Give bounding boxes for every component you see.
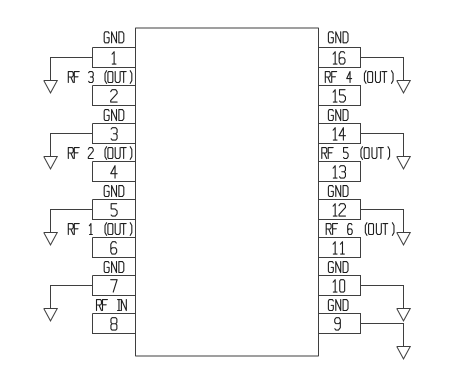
wire pin 14 vertical segment [403,133,405,157]
pin 10 number [333,280,345,292]
pin 4 box [93,162,136,182]
pin 12 box [319,200,361,220]
ground symbol pin 9 [397,347,411,359]
wire pin 14 horizontal segment [361,133,404,135]
label RF 2 (OUT) pin 4 [68,147,132,160]
wire pin 12 vertical segment [403,209,405,233]
label RF 1 (OUT) pin 6 [68,223,132,236]
pin 5 number [111,204,117,216]
wire pin 1 horizontal segment [51,57,93,59]
label RF 3 (OUT) pin 2 [68,71,132,84]
pin 2 box [93,86,136,106]
wire pin 3 horizontal segment [51,133,93,135]
wire pin 10 horizontal segment [361,285,404,287]
pin 16 number [333,52,345,64]
ground symbol pin 12 [397,233,411,245]
label GND pin 12 [328,186,348,197]
label GND pin 3 [104,110,124,121]
ground symbol pin 14 [397,157,411,169]
pin 1 number [112,52,116,64]
pin 5 box [93,200,136,220]
pin 6 box [93,238,136,258]
pin 13 box [319,162,361,182]
label RF IN pin 8 [97,300,127,311]
pin 9 box [319,314,361,334]
pin 8 number [111,318,117,330]
wire pin 9 horizontal segment [361,323,404,325]
wire pin 16 horizontal segment [361,57,404,59]
pin 15 box [319,86,361,106]
label GND pin 5 [104,186,124,197]
pin 2 number [111,90,117,102]
label GND pin 16 [328,32,348,43]
pin 4 number [111,166,117,178]
pin 10 box [319,276,361,296]
label GND pin 9 [328,300,348,311]
ground symbol pin 10 [397,309,411,321]
wire pin 3 vertical segment [50,133,52,157]
ground symbol pin 5 [44,233,58,245]
label GND pin 7 [104,262,124,273]
pin 6 number [111,242,117,254]
pin 13 number [333,166,345,178]
pin 3 box [93,124,136,144]
pin 11 number [333,242,344,254]
ground symbol pin 7 [44,309,58,321]
wire pin 7 horizontal segment [51,285,93,287]
pin 14 number [333,128,345,140]
wire pin 9 vertical segment [403,323,405,347]
pin 9 number [335,318,341,330]
pin 11 box [319,238,361,258]
pin 3 number [111,128,117,140]
label GND pin 10 [328,262,348,273]
pin 1 box [93,48,136,68]
ground symbol pin 1 [44,81,58,93]
label RF 4 (OUT) pin 15 [325,71,393,84]
wire pin 12 horizontal segment [361,209,404,211]
pin 12 number [333,204,345,216]
wire pin 10 vertical segment [403,285,405,309]
wire pin 1 vertical segment [50,57,52,81]
pin 15 number [333,90,345,102]
pin 7 number [111,280,117,292]
wire pin 16 vertical segment [403,57,405,81]
label RF 6 (OUT) pin 11 [326,223,394,236]
pin 8 box [93,314,136,334]
pin 14 box [319,124,361,144]
wire pin 7 vertical segment [50,285,52,309]
label RF 5 (OUT) pin 13 [322,147,390,160]
wire pin 5 horizontal segment [51,209,93,211]
pin 16 box [319,48,361,68]
IC body U1 [136,28,319,357]
wire pin 5 vertical segment [50,209,52,233]
label GND pin 1 [104,32,124,43]
label GND pin 14 [328,110,348,121]
pin 7 box [93,276,136,296]
ground symbol pin 16 [397,81,411,93]
ground symbol pin 3 [44,157,58,169]
